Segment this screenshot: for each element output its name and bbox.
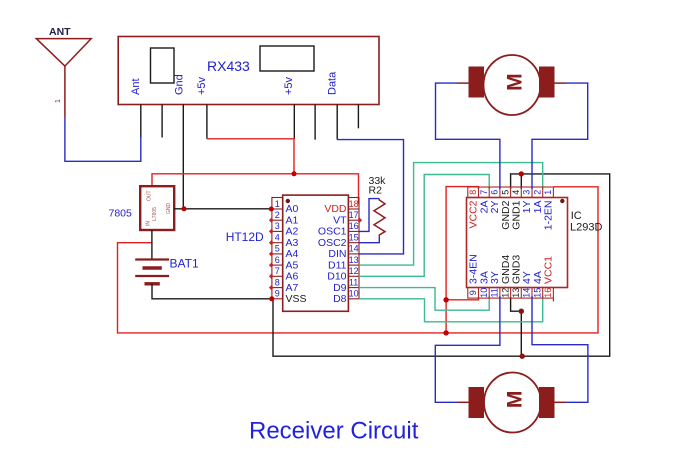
svg-text:M: M <box>504 73 527 91</box>
svg-text:18: 18 <box>349 199 359 209</box>
svg-text:A0: A0 <box>286 203 299 215</box>
svg-text:14: 14 <box>522 288 532 298</box>
svg-text:D9: D9 <box>333 282 347 294</box>
svg-text:VCC1: VCC1 <box>543 256 555 284</box>
svg-text:12: 12 <box>500 288 510 298</box>
svg-text:RX433: RX433 <box>207 58 250 74</box>
svg-text:17: 17 <box>349 210 359 220</box>
svg-text:ANT: ANT <box>49 26 71 38</box>
svg-text:6: 6 <box>275 255 280 265</box>
svg-text:A1: A1 <box>286 214 299 226</box>
svg-text:8: 8 <box>275 277 280 287</box>
svg-text:D8: D8 <box>333 293 347 305</box>
svg-text:2: 2 <box>275 210 280 220</box>
svg-text:7: 7 <box>479 190 489 195</box>
svg-text:GND: GND <box>166 203 172 215</box>
svg-text:1-2EN: 1-2EN <box>543 201 555 231</box>
svg-text:16: 16 <box>543 288 553 298</box>
svg-text:L7805: L7805 <box>152 207 158 221</box>
svg-text:9: 9 <box>275 289 280 299</box>
svg-text:15: 15 <box>349 232 359 242</box>
svg-text:+5v: +5v <box>196 76 208 95</box>
svg-text:D11: D11 <box>328 259 347 271</box>
svg-text:10: 10 <box>349 289 359 299</box>
svg-text:13: 13 <box>511 288 521 298</box>
svg-text:A5: A5 <box>286 259 299 271</box>
svg-text:4: 4 <box>511 190 521 195</box>
svg-text:1: 1 <box>275 199 280 209</box>
svg-text:L293D: L293D <box>570 222 602 234</box>
svg-text:D10: D10 <box>327 271 346 283</box>
svg-text:1: 1 <box>55 99 62 103</box>
svg-text:VT: VT <box>333 214 347 226</box>
svg-text:A4: A4 <box>286 248 299 260</box>
svg-text:Data: Data <box>327 71 339 95</box>
svg-text:13: 13 <box>349 255 359 265</box>
svg-text:IC: IC <box>571 210 582 222</box>
svg-text:A3: A3 <box>286 237 299 249</box>
svg-text:5: 5 <box>500 190 510 195</box>
svg-text:A2: A2 <box>286 226 299 238</box>
svg-text:7: 7 <box>275 266 280 276</box>
svg-text:Ant: Ant <box>130 78 142 95</box>
svg-text:M: M <box>504 391 527 409</box>
svg-text:9: 9 <box>468 290 478 295</box>
svg-text:14: 14 <box>349 244 359 254</box>
svg-text:+5v: +5v <box>283 76 295 95</box>
svg-text:VSS: VSS <box>286 293 307 305</box>
svg-text:10: 10 <box>479 288 489 298</box>
svg-text:2: 2 <box>532 190 542 195</box>
svg-text:11: 11 <box>349 277 358 287</box>
svg-text:OSC2: OSC2 <box>318 237 347 249</box>
svg-text:OSC1: OSC1 <box>318 226 347 238</box>
svg-text:15: 15 <box>532 288 542 298</box>
svg-text:3: 3 <box>275 221 280 231</box>
svg-text:VDD: VDD <box>324 203 347 215</box>
svg-text:R2: R2 <box>369 185 383 197</box>
svg-text:11: 11 <box>490 288 500 297</box>
svg-text:1: 1 <box>543 190 553 195</box>
svg-text:IN: IN <box>146 221 152 226</box>
svg-text:4: 4 <box>275 232 280 242</box>
svg-text:16: 16 <box>349 221 359 231</box>
svg-text:6: 6 <box>490 190 500 195</box>
svg-text:A7: A7 <box>286 282 299 294</box>
svg-text:A6: A6 <box>286 271 299 283</box>
svg-text:BAT1: BAT1 <box>170 257 199 271</box>
svg-text:OUT: OUT <box>147 190 153 201</box>
svg-text:Receiver Circuit: Receiver Circuit <box>249 418 419 445</box>
svg-text:DIN: DIN <box>328 248 346 260</box>
svg-text:8: 8 <box>468 190 478 195</box>
svg-text:HT12D: HT12D <box>226 230 264 244</box>
svg-text:12: 12 <box>349 266 359 276</box>
svg-text:Gnd: Gnd <box>174 74 186 95</box>
svg-text:3: 3 <box>522 190 532 195</box>
svg-text:5: 5 <box>275 244 280 254</box>
svg-text:7805: 7805 <box>109 208 133 220</box>
